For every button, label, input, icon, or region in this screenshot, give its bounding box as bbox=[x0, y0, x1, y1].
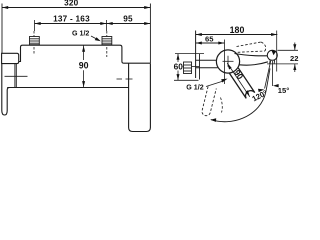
spout (side) bbox=[235, 54, 268, 56]
dashed swing arc segment bbox=[221, 98, 223, 113]
extension line left (320) bbox=[1, 4, 3, 54]
svg-text:65: 65 bbox=[205, 35, 214, 44]
aerator ball bbox=[267, 50, 277, 60]
pipe centerline tick bbox=[192, 66, 200, 68]
dashed centerline through right nut bbox=[106, 31, 108, 57]
extension line spout tip bbox=[276, 31, 278, 72]
dashed centerline through left nut bbox=[33, 31, 35, 54]
swing arc 120 bbox=[211, 69, 270, 122]
dim 60 (side) bbox=[177, 54, 179, 62]
escutcheon edge bbox=[199, 54, 201, 80]
lever dim line 90 bbox=[227, 63, 250, 97]
leader G 1/2 bbox=[91, 36, 99, 40]
dim 22 reference lines bbox=[278, 49, 299, 51]
outlet axis line (vertical) bbox=[272, 61, 274, 86]
extension line right nut center bbox=[106, 20, 108, 31]
extension line cartridge axis bbox=[224, 40, 226, 85]
spout (front) bbox=[129, 63, 151, 131]
svg-text:22: 22 bbox=[290, 54, 298, 63]
left inlet nut bbox=[30, 37, 40, 45]
outlet tube bbox=[269, 60, 272, 64]
dashed lever down position bbox=[202, 87, 216, 116]
svg-text:90: 90 bbox=[79, 61, 89, 71]
dim line 320 bbox=[2, 7, 150, 9]
center cross bbox=[223, 60, 234, 62]
handle knob (front) bbox=[2, 53, 19, 63]
svg-text:15°: 15° bbox=[278, 86, 289, 95]
dashed raised spout bbox=[237, 42, 266, 52]
right inlet nut bbox=[102, 37, 112, 45]
dim 90 (front) bbox=[83, 46, 85, 61]
extension line right (320/95) bbox=[149, 4, 151, 64]
svg-text:60: 60 bbox=[174, 62, 184, 72]
svg-text:180: 180 bbox=[230, 25, 245, 35]
lever arm (front) bbox=[2, 64, 10, 115]
valve body circle bbox=[216, 50, 239, 73]
lever pivot tick bbox=[5, 75, 28, 77]
svg-text:137 - 163: 137 - 163 bbox=[53, 14, 90, 23]
15deg arrows bbox=[258, 89, 264, 92]
dim line 137-163 bbox=[35, 23, 107, 25]
inlet union nut (side) bbox=[184, 62, 192, 74]
dim line 180 bbox=[196, 34, 278, 36]
supply pipe bbox=[196, 59, 217, 61]
dim line 95 bbox=[107, 23, 151, 25]
extension line left nut center bbox=[34, 20, 36, 31]
svg-text:G 1/2: G 1/2 bbox=[186, 84, 203, 92]
outlet 15deg line bbox=[265, 61, 271, 89]
svg-text:95: 95 bbox=[123, 15, 133, 24]
spout centerline ticks bbox=[117, 78, 123, 80]
dim line 65 bbox=[196, 42, 225, 44]
body outline top (front) bbox=[16, 45, 150, 63]
aerator shadow wedge bbox=[271, 50, 276, 55]
escutcheon stem (front left) bbox=[14, 64, 16, 88]
solid lever (side) bbox=[230, 68, 255, 99]
leader G 1/2 side bbox=[206, 81, 223, 86]
svg-text:G 1/2: G 1/2 bbox=[72, 29, 89, 37]
wall line bbox=[195, 31, 197, 79]
body bottom line bbox=[7, 87, 128, 89]
svg-text:320: 320 bbox=[64, 0, 79, 8]
